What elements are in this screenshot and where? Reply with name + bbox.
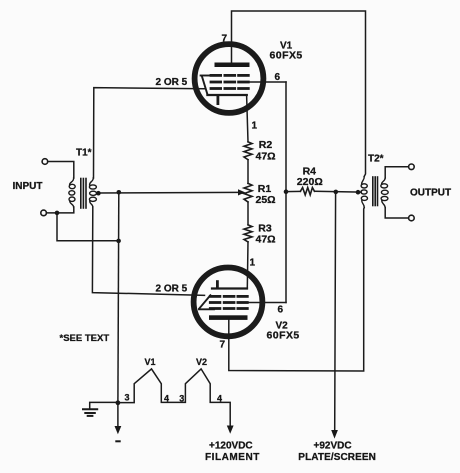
wire: T2 secondary bottom to output terminal <box>385 208 408 218</box>
svg-text:+92VDC: +92VDC <box>314 441 352 452</box>
wire: R4 right lead to T2 center tap <box>315 190 362 193</box>
node: junction bias return / center-tap line <box>116 239 121 244</box>
node: junction input bottom / bias return <box>55 211 60 216</box>
transformer T2 primary winding <box>361 177 368 208</box>
wire: filament string (V1 pins 3-4, V2 pins 3-4) <box>118 369 230 427</box>
svg-text:60FX5: 60FX5 <box>270 50 303 62</box>
resistor R2 47ohm <box>244 142 252 160</box>
svg-text:PLATE/SCREEN: PLATE/SCREEN <box>298 452 376 463</box>
V2 grid row 2 (dashes, screen to pin 6) <box>210 301 247 304</box>
wire: screen bus vertical (pin 6 of V1 to pin 6 of V2) <box>285 82 287 303</box>
svg-text:R1: R1 <box>258 183 272 195</box>
wire: to ground symbol <box>90 402 118 408</box>
svg-text:47Ω: 47Ω <box>256 151 276 163</box>
svg-text:6: 6 <box>275 72 281 83</box>
svg-text:3: 3 <box>179 394 184 404</box>
svg-text:R2: R2 <box>259 139 273 151</box>
arrow: +92VDC <box>331 430 338 439</box>
svg-text:220Ω: 220Ω <box>297 176 323 188</box>
V2 grid row 1 (dashes) <box>210 295 247 298</box>
svg-text:V2: V2 <box>196 357 207 367</box>
wire: R1 to R3 <box>247 202 249 225</box>
V2 grid row 3 (dashes) <box>210 307 247 310</box>
node: junction R4 / +92V line <box>334 190 339 195</box>
wire: input bottom to T1 primary bottom <box>46 207 73 213</box>
wire: V2 plate pin 7 down and right to T2 primary bottom <box>229 208 364 372</box>
svg-text:1: 1 <box>250 258 256 269</box>
svg-text:1: 1 <box>252 121 258 132</box>
V1 cathode line to pin 1 <box>207 94 246 96</box>
wire: T1 secondary bottom down and right to V2 control grid <box>92 207 204 295</box>
svg-text:INPUT: INPUT <box>13 181 43 192</box>
wire: T1 center tap to R1 wiper <box>97 191 240 194</box>
node: junction at T2 primary center tap <box>356 190 361 195</box>
terminal: output bottom <box>409 215 415 221</box>
V1 cathode flag (top line + diagonal) <box>201 76 214 95</box>
node: junction ground / filament / negative lead <box>116 400 121 405</box>
V2 cathode line from pin 1 <box>212 287 247 289</box>
V1 grid row 2 (dashes, screen to pin 6) <box>211 81 248 84</box>
V1 cathode tick <box>216 96 219 104</box>
wire: T2 secondary top to output terminal <box>385 167 408 178</box>
resistor R4 220ohm <box>300 188 314 195</box>
svg-text:25Ω: 25Ω <box>256 194 276 206</box>
V1 plate (anode) bar <box>215 63 250 68</box>
terminal: output top <box>409 164 415 170</box>
ground <box>83 409 97 416</box>
wire: ground branch vertical <box>117 192 120 402</box>
V1 grid row 3 (dashes) <box>211 87 248 90</box>
arrow: negative lead <box>115 426 122 434</box>
svg-text:V1: V1 <box>145 357 156 367</box>
svg-text:7: 7 <box>220 340 226 351</box>
resistor R3 47ohm <box>244 225 252 242</box>
transformer T1 primary winding <box>69 178 75 207</box>
arrow: R1 wiper <box>238 189 245 195</box>
wire: +92VDC feed line down <box>334 192 337 431</box>
transformer T1 core <box>81 179 86 209</box>
wire: bias return from input bottom down and right <box>57 213 119 241</box>
svg-text:FILAMENT: FILAMENT <box>205 452 260 463</box>
wire: V2 pin 6 to screen bus <box>248 302 287 304</box>
V2 cathode tick <box>216 282 219 288</box>
svg-text:R3: R3 <box>258 222 272 234</box>
node: junction T1 center tap <box>96 191 101 196</box>
tube V1 envelope <box>195 44 264 113</box>
transformer T1 secondary winding <box>89 178 96 207</box>
svg-text:*SEE TEXT: *SEE TEXT <box>60 333 110 344</box>
svg-text:T1*: T1* <box>76 148 92 159</box>
wire: T1 secondary top up and right to V1 control grid <box>94 88 205 178</box>
tube V2 envelope <box>194 268 263 337</box>
wire: negative lead down <box>117 403 119 427</box>
wire: V1 pin 6 to screen bus <box>249 81 287 83</box>
V2 cathode flag (bottom line + diagonal) <box>199 295 214 309</box>
potentiometer R1 25ohm <box>244 183 252 202</box>
negative sign <box>115 440 120 442</box>
wire: R3 down to V2 cathode pin 1 <box>246 242 249 289</box>
wire: V1 cathode pin1 down to R2 <box>247 95 248 142</box>
svg-text:4: 4 <box>164 394 169 404</box>
wire: V1 plate pin7 up to top rail and down right side to T2 primary top <box>232 11 366 177</box>
transformer T2 core <box>373 177 378 206</box>
terminal: input top <box>42 159 48 165</box>
wire: R4 left lead <box>286 190 300 192</box>
terminal: input bottom <box>41 210 47 216</box>
node: junction screen bus / R4 <box>284 189 289 194</box>
svg-text:47Ω: 47Ω <box>256 234 276 246</box>
svg-text:+120VDC: +120VDC <box>209 441 253 452</box>
transformer T2 secondary winding <box>381 178 388 208</box>
V2 plate (anode) bar <box>209 315 248 320</box>
node: junction center tap / ground branch <box>117 190 122 195</box>
svg-text:60FX5: 60FX5 <box>267 330 300 342</box>
svg-text:4: 4 <box>217 394 222 404</box>
arrow: filament supply <box>227 426 234 434</box>
svg-text:T2*: T2* <box>368 154 384 165</box>
svg-text:2 OR 5: 2 OR 5 <box>156 284 188 295</box>
wire: input top to T1 primary top <box>48 162 74 179</box>
V1 grid row 1 (dashes) <box>211 74 248 77</box>
svg-text:3: 3 <box>125 393 130 403</box>
wire: R2 to R1 <box>247 160 249 184</box>
svg-text:7: 7 <box>222 34 228 45</box>
svg-text:OUTPUT: OUTPUT <box>410 188 451 199</box>
svg-text:6: 6 <box>278 305 284 316</box>
svg-text:2 OR 5: 2 OR 5 <box>156 77 188 88</box>
